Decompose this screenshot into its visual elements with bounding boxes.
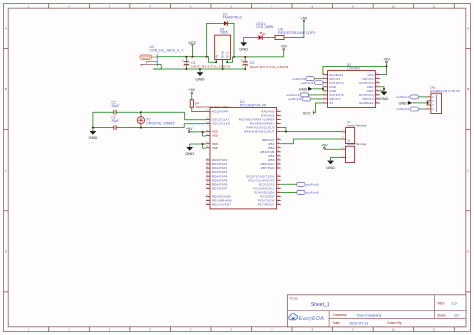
svg-text:20pF: 20pF xyxy=(111,119,119,123)
wire: GND arrow to GND pins bridge xyxy=(313,88,323,90)
svg-text:7805: 7805 xyxy=(220,31,228,35)
svg-text:GND: GND xyxy=(299,87,308,91)
svg-text:B: B xyxy=(467,87,469,91)
svg-text:100uF 35V 6.3*11_C45078: 100uF 35V 6.3*11_C45078 xyxy=(191,65,230,69)
ground (LED branch) xyxy=(239,42,248,51)
svg-text:OUT: OUT xyxy=(225,51,229,58)
resistor U4 RESISTOR1/4W COPY (vertical) xyxy=(190,100,229,109)
svg-text:+5V: +5V xyxy=(188,88,195,92)
wire: LED cathode to resistor U6 xyxy=(262,37,275,39)
node: U5 GND junction xyxy=(222,68,224,70)
port GND (CN1) xyxy=(399,101,413,105)
svg-text:EasyEDA: EasyEDA xyxy=(299,316,324,322)
node: U5 IN pin dot xyxy=(215,61,217,63)
title block frame xyxy=(287,295,466,327)
resistor U6 RESISTOR1/4W COPY xyxy=(275,28,316,40)
svg-text:PIC16F877A-I/P: PIC16F877A-I/P xyxy=(240,103,266,107)
wire: ground rail xyxy=(153,68,245,70)
regulator U5 7805 xyxy=(214,27,230,62)
wire: jack sleeve to ground rail xyxy=(153,65,161,69)
svg-text:100uF 35V 6.3*11_C45078: 100uF 35V 6.3*11_C45078 xyxy=(250,65,289,69)
port outPort3 (CN1 pin1) xyxy=(396,95,418,99)
svg-text:CON_DC_JACK_4_7: CON_DC_JACK_4_7 xyxy=(150,48,184,52)
svg-text:VS: VS xyxy=(329,101,333,105)
wire: RC4 to outPort6 xyxy=(281,191,297,193)
crystal X1 CRYSTAL 20MHZ xyxy=(137,112,174,127)
svg-text:outPort1: outPort1 xyxy=(396,95,409,99)
node: U5 OUT pin dot xyxy=(226,61,228,63)
wire: +5V to VSS pin xyxy=(380,63,387,75)
svg-text:VSS: VSS xyxy=(212,146,218,150)
wire: VSS pin bridge xyxy=(203,144,206,148)
svg-text:TITLE:: TITLE: xyxy=(289,296,298,300)
svg-text:outPort6: outPort6 xyxy=(288,97,301,101)
node: VCC junction xyxy=(191,56,193,58)
svg-text:VCC: VCC xyxy=(303,111,311,115)
svg-text:+5V: +5V xyxy=(280,45,287,49)
EasyEDA logo xyxy=(289,313,324,322)
connector CN1 WJ2EDGVM-5.08-4P xyxy=(427,86,460,114)
driver IC U2 L293DN xyxy=(323,63,380,107)
wire: +5V stem to rail xyxy=(283,50,285,57)
title block texts xyxy=(289,296,459,325)
wire: outPort2 flag to OUTPUT2 xyxy=(309,94,323,96)
wire: VCC stem xyxy=(191,45,193,57)
VCC net flag xyxy=(188,41,196,45)
ground (U2) xyxy=(380,92,389,101)
node: diode-input junction xyxy=(206,56,208,58)
wire: stem to ground (U2) xyxy=(383,89,385,92)
svg-text:outPort6: outPort6 xyxy=(306,191,319,195)
wire: U5 GND to ground rail xyxy=(222,62,224,69)
wire: VDD pin bridge xyxy=(203,132,206,136)
wire: into OSC2 pin xyxy=(184,124,206,128)
wire: outPort1 flag to OUTPUT1 xyxy=(322,82,324,84)
wire: OSC1 top wire xyxy=(93,111,114,113)
wire: +5V to J2 pin 1 xyxy=(324,148,341,150)
svg-text:outPort5: outPort5 xyxy=(306,182,319,186)
wire: J2 pin 2 to ground xyxy=(331,157,342,160)
svg-text:outPort2: outPort2 xyxy=(396,107,409,111)
svg-text:REV:: REV: xyxy=(438,301,445,305)
ground (crystal) xyxy=(88,131,97,140)
+5V net flag (VDD) xyxy=(186,127,193,133)
capacitor C3 100uF 35V xyxy=(182,57,230,69)
svg-text:RA5/AN4/SS/C2OUT: RA5/AN4/SS/C2OUT xyxy=(244,130,274,134)
svg-text:20pF: 20pF xyxy=(111,104,119,108)
wire: +5V to resistor U4 xyxy=(191,94,193,100)
connector U3 CON_DC_JACK_4_7 xyxy=(140,45,183,66)
svg-text:GND: GND xyxy=(399,101,408,105)
svg-text:B: B xyxy=(5,87,7,91)
svg-text:+5V: +5V xyxy=(383,57,390,61)
wire: RA4 to J1 net xyxy=(281,128,286,132)
connector J1 Screw Terminal xyxy=(341,120,366,144)
svg-text:OSC2/CLKO: OSC2/CLKO xyxy=(212,122,231,126)
wire: GND to CN1 pins 2,3 xyxy=(412,102,427,104)
node: CN1 GND junction xyxy=(427,102,429,104)
node: C4 bottom junction xyxy=(244,68,246,70)
wire: outPort flag to CN1 pin 1 xyxy=(419,96,427,98)
svg-text:ENABLE2: ENABLE2 xyxy=(359,101,374,105)
svg-text:GND: GND xyxy=(221,51,225,58)
node: ground stem junction xyxy=(199,68,201,70)
node: U2 right GND junction xyxy=(383,88,385,90)
wire: input rail into U5 IN xyxy=(207,57,217,63)
ground (J2) xyxy=(326,161,335,170)
svg-text:C: C xyxy=(5,168,7,172)
svg-text:+5V: +5V xyxy=(301,16,308,20)
frame row ticks and letters xyxy=(4,26,471,292)
svg-text:RC7/RX/DT: RC7/RX/DT xyxy=(258,203,275,207)
svg-text:CRYSTAL 20MHZ: CRYSTAL 20MHZ xyxy=(146,121,174,125)
wire: ground rail to GND stem xyxy=(199,69,201,72)
svg-text:IN: IN xyxy=(214,55,218,58)
+5V net flag (U2 supply) xyxy=(383,57,390,63)
wire: jack tip to input rail xyxy=(157,56,207,58)
svg-text:MCLR/VPP: MCLR/VPP xyxy=(212,109,228,113)
svg-text:+5V: +5V xyxy=(321,143,328,147)
wire: outPort6 flag to INPUT2 xyxy=(311,98,323,100)
svg-text:RD7/PSP7: RD7/PSP7 xyxy=(212,186,228,190)
node: crystal-gnd junction xyxy=(92,127,94,129)
node: RA5/RA4 junction xyxy=(285,131,287,133)
svg-text:Screw Terminal: Screw Terminal xyxy=(347,142,366,146)
wire: resistor to MCLR pin xyxy=(192,107,206,111)
node: +5V/ENABLE1 junction xyxy=(386,65,388,67)
port outPort1 (to INPUT1) xyxy=(292,77,314,81)
svg-text:RESISTOR1/4W COPY: RESISTOR1/4W COPY xyxy=(278,31,316,35)
wire: U2 right GND pins bridge xyxy=(380,87,384,91)
wire: ENABLE1 to +5V net xyxy=(322,74,324,76)
wire: outPort5 flag to INPUT1 xyxy=(314,78,323,80)
svg-text:TA4007RLG: TA4007RLG xyxy=(223,16,243,20)
+5V net flag (LED branch) xyxy=(301,16,308,22)
node: U2 left GND junction xyxy=(322,88,324,90)
node: diode-output junction xyxy=(233,56,235,58)
node: C3 bottom junction xyxy=(185,68,187,70)
svg-text:Screw Terminal: Screw Terminal xyxy=(347,123,366,127)
svg-text:GND: GND xyxy=(326,165,335,170)
ground (input section) xyxy=(196,72,205,81)
wire: RC2 to outPort5 xyxy=(281,183,297,185)
capacitor C1 20pF xyxy=(111,115,119,129)
port GND (U2 left GND pins) xyxy=(299,87,313,91)
wire: crystal left vertical to ground xyxy=(92,112,94,131)
svg-text:A: A xyxy=(467,26,469,30)
svg-text:L293DN: L293DN xyxy=(347,67,360,71)
wire: LED branch with GND stem xyxy=(244,38,259,43)
capacitor C2 20pF xyxy=(111,100,119,114)
svg-text:1/1: 1/1 xyxy=(454,314,459,318)
svg-text:VDD: VDD xyxy=(212,134,218,138)
svg-text:Sheet:: Sheet: xyxy=(437,313,446,317)
svg-text:+5V: +5V xyxy=(186,127,193,131)
port outPort5 (from RC2) xyxy=(297,182,319,186)
node: VSS junction xyxy=(202,143,204,145)
svg-text:GND: GND xyxy=(196,76,205,81)
svg-text:Drawn By:: Drawn By: xyxy=(387,321,402,325)
wire: OSC2 bottom wire xyxy=(93,127,114,129)
svg-text:RE2/CS/AN7: RE2/CS/AN7 xyxy=(212,203,231,207)
diode D1 TA4007RLG xyxy=(223,12,243,26)
wire: into OSC1 pin xyxy=(185,112,206,120)
svg-text:GND: GND xyxy=(88,135,97,140)
node: C3 top junction xyxy=(185,56,187,58)
svg-text:RB7/PGD: RB7/PGD xyxy=(261,166,275,170)
svg-text:Sheet_1: Sheet_1 xyxy=(311,302,330,308)
capacitor C4 100uF 35V xyxy=(241,57,289,69)
port outPort2 (to OUTPUT2) xyxy=(286,93,308,97)
node: VDD junction xyxy=(202,131,204,133)
svg-text:A: A xyxy=(5,26,7,30)
port outPort1 (to OUTPUT1) xyxy=(301,81,323,85)
port outPort6 (from RC4) xyxy=(297,190,319,194)
wire: RA5 to screw terminal J1 pin 1 xyxy=(281,131,342,133)
svg-text:GND: GND xyxy=(239,47,248,52)
svg-text:outPort1: outPort1 xyxy=(301,81,314,85)
svg-text:D: D xyxy=(5,249,7,253)
svg-text:GND: GND xyxy=(185,151,194,156)
wire: VSS pins to ground xyxy=(189,144,191,147)
LED1 LED_5MW xyxy=(256,22,273,40)
svg-text:1.0: 1.0 xyxy=(452,302,457,306)
wire: resistor to +5V xyxy=(284,22,304,38)
wire: +5V to VDD pins xyxy=(188,131,190,133)
wire: outPort flag to CN1 pin 4 xyxy=(419,108,427,110)
svg-text:Date:: Date: xyxy=(333,321,341,325)
op-amp-like main MCU U1 PIC16F877A-I/P xyxy=(206,100,281,209)
node: crystal bottom junction xyxy=(140,127,142,129)
node: crystal top junction xyxy=(140,111,142,113)
port outPort0 (CN1 pin4) xyxy=(396,107,418,111)
port outPort6 (to INPUT2) xyxy=(288,97,310,101)
wire: input rail to diode D1 anode xyxy=(207,23,224,56)
svg-text:D: D xyxy=(467,249,469,253)
wire: RB1 to screw terminal J1 pin 2 xyxy=(281,139,342,144)
svg-text:2022-07-11: 2022-07-11 xyxy=(349,321,368,325)
+5V net flag (MCLR pull-up) xyxy=(188,88,195,94)
+5V net flag (J2) xyxy=(321,143,328,149)
connector J2 Screw Terminal xyxy=(341,139,366,163)
wire: diode cathode to output rail xyxy=(227,23,234,57)
node: C4 top junction xyxy=(244,56,246,58)
wire: VCC to VS pin xyxy=(313,103,323,113)
svg-text:Company:: Company: xyxy=(333,313,348,317)
svg-text:C: C xyxy=(467,168,469,172)
svg-text:LED_5MW: LED_5MW xyxy=(256,25,273,29)
svg-text:WJ2EDGVM-5.08-4P: WJ2EDGVM-5.08-4P xyxy=(430,89,460,93)
ground (VSS) xyxy=(185,147,194,156)
+5V net flag (output rail) xyxy=(280,45,287,51)
wire: U5 OUT to +5V rail xyxy=(227,57,284,62)
svg-text:Your Company: Your Company xyxy=(356,314,381,318)
VCC net flag (U2 VS pin) xyxy=(303,111,313,116)
svg-text:GND: GND xyxy=(380,96,389,101)
